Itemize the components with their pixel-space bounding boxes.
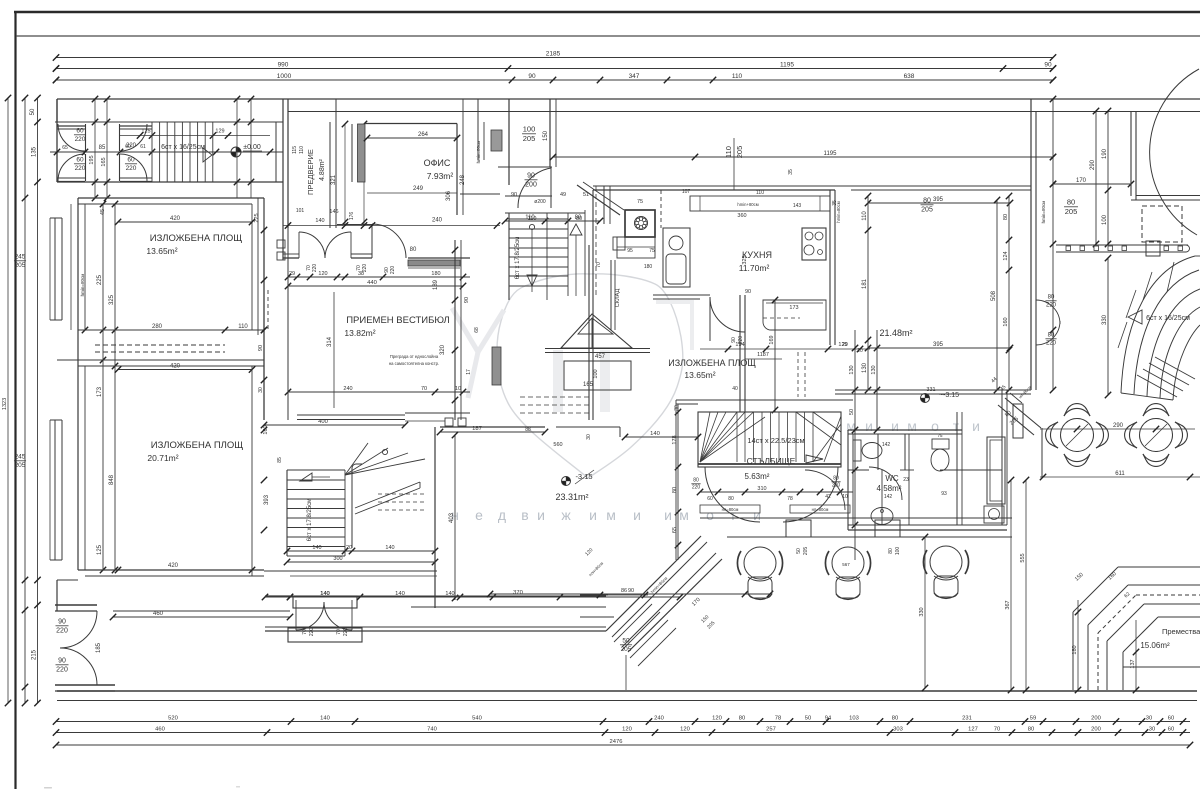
svg-text:325: 325 — [742, 255, 748, 264]
svg-text:75: 75 — [637, 199, 643, 205]
svg-text:30: 30 — [586, 434, 592, 440]
svg-text:90: 90 — [58, 619, 66, 626]
room 2148 dim 395 top — [868, 202, 1010, 204]
svg-text:4.58m²: 4.58m² — [877, 484, 902, 493]
svg-text:508: 508 — [991, 290, 997, 301]
svg-text:80: 80 — [1028, 726, 1034, 732]
room 2148 south wall — [835, 389, 1031, 391]
diag wall kitchen — [577, 185, 620, 215]
svg-text:нп=80см: нп=80см — [812, 507, 829, 512]
label 330 right — [1107, 258, 1109, 395]
central stair newel — [529, 224, 534, 229]
room 2148 vdim right — [996, 200, 998, 390]
room 2148 walls — [835, 185, 1031, 187]
central stair treads — [509, 218, 568, 220]
svg-text:м: м — [907, 418, 917, 434]
svg-text:т: т — [953, 418, 960, 434]
svg-text:400: 400 — [318, 419, 328, 425]
svg-text:176: 176 — [349, 212, 355, 221]
svg-text:21.48m²: 21.48m² — [879, 328, 912, 338]
svg-text:200: 200 — [1091, 715, 1101, 721]
svg-text:393: 393 — [264, 494, 270, 505]
room A dim 420 mid — [118, 369, 252, 371]
hall east wall — [588, 245, 590, 420]
diagonal passage walls — [1005, 398, 1041, 428]
svg-text:160: 160 — [1003, 317, 1009, 326]
svg-text:70: 70 — [421, 386, 427, 392]
bar stool 2 — [832, 547, 864, 579]
svg-text:245: 245 — [15, 454, 26, 461]
tick marks verticals — [261, 227, 267, 233]
svg-text:38: 38 — [358, 271, 364, 277]
svg-text:103: 103 — [849, 715, 859, 721]
svg-text:420: 420 — [170, 363, 181, 369]
svg-text:567: 567 — [842, 562, 850, 567]
svg-text:611: 611 — [1115, 471, 1125, 477]
wall stub left — [78, 329, 85, 331]
wc vdim right — [876, 330, 878, 430]
svg-text:о: о — [931, 418, 939, 434]
svg-text:50: 50 — [622, 638, 630, 645]
svg-text:80: 80 — [739, 715, 745, 721]
left dimension line 245/205 a — [24, 98, 26, 703]
movable vdim 180 — [1077, 600, 1079, 690]
svg-text:90: 90 — [1044, 61, 1052, 68]
left stub walls — [619, 427, 621, 437]
svg-text:60: 60 — [707, 496, 713, 502]
dim 1195 inner — [553, 156, 1053, 158]
svg-text:420: 420 — [170, 216, 181, 222]
lower stair treads — [287, 479, 345, 481]
svg-text:90: 90 — [528, 73, 536, 80]
hall 23 vdim — [454, 435, 456, 600]
kitchen dashed — [763, 317, 800, 319]
svg-text:80: 80 — [833, 476, 839, 482]
window hatch hall — [492, 347, 501, 385]
railing right — [1056, 244, 1188, 246]
room B dim 420 bottom — [118, 569, 252, 571]
svg-text:в: в — [521, 507, 528, 523]
svg-text:220: 220 — [390, 266, 396, 275]
svg-text:и: и — [664, 507, 672, 523]
svg-text:306: 306 — [446, 190, 452, 201]
svg-text:100: 100 — [1102, 214, 1108, 225]
stair west vdim — [677, 404, 679, 560]
svg-text:СКЛАД: СКЛАД — [615, 289, 621, 308]
svg-text:135: 135 — [31, 146, 37, 157]
svg-text:80: 80 — [672, 487, 678, 493]
svg-text:205: 205 — [523, 134, 536, 143]
stair south wall top — [676, 399, 853, 401]
svg-text:Преграда от еднослойна: Преграда от еднослойна — [390, 354, 439, 359]
lower stair arrow — [300, 473, 312, 481]
svg-text:180: 180 — [644, 264, 653, 270]
svg-text:85: 85 — [277, 457, 283, 463]
left of stair dim 140 — [625, 436, 698, 438]
hall 23 dim 370 — [560, 596, 680, 598]
svg-text:75: 75 — [937, 433, 943, 438]
pilaster dark — [358, 124, 366, 182]
svg-text:15.06m²: 15.06m² — [1140, 641, 1170, 650]
svg-text:165: 165 — [583, 382, 594, 388]
hall 23 dim 187 — [440, 431, 545, 433]
dimension line 2185 — [56, 57, 1053, 59]
dim 400 row — [264, 424, 405, 426]
svg-text:2476: 2476 — [610, 739, 623, 745]
svg-text:60: 60 — [76, 157, 84, 164]
movable inner lines — [1123, 666, 1200, 668]
svg-text:90: 90 — [464, 297, 470, 303]
svg-text:220: 220 — [343, 628, 349, 637]
right double door — [1036, 300, 1060, 324]
svg-text:110: 110 — [862, 211, 868, 221]
svg-text:347: 347 — [629, 73, 640, 80]
svg-text:и: и — [865, 418, 873, 434]
svg-text:и: и — [891, 418, 899, 434]
curved stair bottom steps — [1137, 375, 1177, 397]
svg-text:80: 80 — [728, 496, 734, 502]
entry vestibule walls — [56, 99, 58, 182]
svg-text:740: 740 — [427, 726, 437, 732]
wc sink 1 — [871, 508, 893, 525]
predverie vdim a — [344, 124, 346, 224]
svg-text:20: 20 — [346, 545, 352, 551]
entry vdim 251 — [250, 99, 252, 198]
svg-text:169: 169 — [769, 335, 775, 344]
svg-text:848: 848 — [109, 474, 115, 485]
svg-text:205: 205 — [735, 146, 744, 159]
svg-text:90: 90 — [511, 192, 517, 198]
svg-text:на самостоятелна констр.: на самостоятелна констр. — [389, 361, 439, 366]
svg-text:80: 80 — [576, 216, 582, 222]
svg-text:и: и — [589, 507, 597, 523]
svg-text:130: 130 — [862, 362, 868, 373]
svg-text:220: 220 — [75, 165, 86, 172]
svg-text:320: 320 — [440, 344, 446, 355]
svg-text:и: и — [972, 418, 980, 434]
wall near tables — [1041, 428, 1043, 477]
svg-text:555: 555 — [1020, 553, 1026, 562]
dashed rect right — [1142, 206, 1182, 242]
svg-text:360: 360 — [737, 213, 746, 219]
svg-text:1000: 1000 — [277, 73, 292, 80]
central stair up arrow — [570, 224, 582, 235]
kitchen top counter — [690, 196, 830, 211]
bar walls — [700, 517, 1012, 519]
svg-text:330: 330 — [919, 607, 925, 616]
dim 290 tables — [1040, 428, 1195, 430]
curved stair right — [1121, 256, 1195, 393]
svg-text:120: 120 — [712, 715, 722, 721]
south boundary wall — [57, 690, 1197, 692]
reception wall left — [263, 228, 265, 420]
entry vdim 195 — [94, 99, 96, 198]
dim 170 right — [1053, 183, 1131, 185]
svg-text:185: 185 — [96, 642, 102, 653]
svg-text:370: 370 — [513, 590, 523, 596]
svg-text:110: 110 — [756, 190, 764, 196]
svg-text:205: 205 — [621, 646, 632, 653]
svg-text:110: 110 — [528, 216, 537, 222]
kitchen cooktop — [802, 228, 826, 260]
svg-text:310: 310 — [757, 486, 766, 492]
svg-text:280: 280 — [152, 324, 163, 330]
svg-text:50: 50 — [30, 108, 36, 115]
left dimension line 1323 — [7, 98, 9, 703]
right L wall — [1130, 112, 1132, 197]
svg-text:65: 65 — [62, 145, 68, 151]
lower stair winders — [345, 443, 368, 475]
reception double door — [299, 232, 325, 258]
svg-text:120: 120 — [680, 726, 690, 732]
extra ticks top — [53, 65, 59, 71]
entry stairs 6 steps — [151, 122, 153, 182]
svg-text:303: 303 — [893, 726, 903, 732]
svg-text:120: 120 — [318, 271, 327, 277]
svg-text:264: 264 — [418, 132, 429, 138]
svg-text:м: м — [606, 507, 616, 523]
svg-text:80: 80 — [892, 715, 898, 721]
svg-text:990: 990 — [278, 61, 289, 68]
svg-text:194: 194 — [735, 342, 744, 348]
svg-text:460: 460 — [155, 726, 165, 732]
svg-text:14ст x 22.5/23см: 14ст x 22.5/23см — [747, 436, 804, 445]
hall triangle podium — [561, 314, 632, 348]
svg-text:231: 231 — [962, 715, 972, 721]
svg-text:240: 240 — [432, 218, 443, 224]
svg-text:143: 143 — [793, 203, 802, 209]
svg-text:150: 150 — [543, 130, 549, 141]
svg-text:124: 124 — [1003, 251, 1009, 260]
svg-text:205: 205 — [921, 207, 933, 214]
room 2148 vdim right2 — [1008, 196, 1010, 390]
svg-text:225: 225 — [97, 274, 103, 285]
lower stair dashes — [378, 493, 425, 495]
office walls — [365, 123, 457, 125]
svg-text:140: 140 — [385, 545, 394, 551]
svg-text:225: 225 — [254, 213, 260, 222]
svg-text:125: 125 — [141, 129, 150, 135]
north exterior wall — [57, 98, 1200, 100]
svg-text:2185: 2185 — [546, 50, 561, 57]
reception dim 140 240 — [283, 225, 500, 227]
bar pedestal 2 — [875, 520, 900, 537]
reception dim 440 — [288, 285, 463, 287]
svg-text:30: 30 — [1146, 715, 1152, 721]
svg-text:50: 50 — [849, 409, 855, 415]
room A vdim 325 — [114, 204, 116, 570]
svg-text:30: 30 — [1149, 726, 1155, 732]
svg-text:220: 220 — [692, 485, 701, 491]
svg-text:248: 248 — [460, 174, 466, 185]
svg-text:129: 129 — [215, 129, 224, 135]
svg-text:е: е — [475, 507, 483, 523]
svg-text:173: 173 — [789, 305, 798, 311]
stair dim row — [700, 491, 853, 493]
right wall main — [1030, 99, 1032, 390]
svg-text:85: 85 — [99, 145, 106, 151]
svg-text:1323: 1323 — [2, 398, 8, 410]
benchmark -3.15 right — [921, 394, 930, 403]
svg-text:520: 520 — [168, 715, 178, 721]
svg-text:240: 240 — [343, 386, 352, 392]
svg-text:290: 290 — [1113, 423, 1124, 429]
svg-text:220: 220 — [1046, 303, 1057, 309]
bottom dim row 1 — [56, 721, 1190, 723]
svg-text:49: 49 — [560, 192, 566, 198]
lower stair stringers — [355, 482, 420, 508]
kitchen stove unit — [625, 210, 655, 237]
svg-text:42: 42 — [825, 494, 831, 500]
bottom-left double door — [55, 604, 97, 606]
svg-text:140: 140 — [650, 431, 660, 437]
predverie vdim b — [363, 124, 365, 224]
svg-text:1195: 1195 — [824, 151, 838, 157]
svg-text:ИЗЛОЖБЕНА ПЛОЩ: ИЗЛОЖБЕНА ПЛОЩ — [150, 233, 243, 244]
svg-text:29: 29 — [289, 271, 295, 277]
svg-text:78: 78 — [775, 715, 781, 721]
svg-text:220: 220 — [56, 628, 68, 635]
svg-text:70: 70 — [302, 629, 308, 635]
room 2148 vdim left — [867, 196, 869, 390]
wc block walls — [848, 429, 962, 431]
svg-text:321: 321 — [331, 174, 337, 185]
lower stair rail — [351, 468, 353, 548]
svg-text:13.65m²: 13.65m² — [684, 370, 715, 380]
svg-text:и: и — [633, 507, 641, 523]
svg-text:95: 95 — [627, 248, 633, 254]
svg-text:Премества: Премества — [1162, 627, 1200, 636]
svg-text:hmin=80см: hmin=80см — [1041, 201, 1046, 224]
right vdim 190 — [1107, 111, 1109, 244]
table T2 with chairs — [1140, 419, 1173, 452]
svg-text:80: 80 — [1048, 295, 1055, 301]
hall south wall — [265, 630, 606, 632]
window hatch top corridor — [491, 130, 502, 151]
svg-text:107: 107 — [682, 189, 691, 195]
svg-text:90: 90 — [745, 289, 751, 295]
svg-text:80: 80 — [923, 198, 931, 205]
watermark text row недвижими имоти — [451, 507, 761, 523]
svg-text:ж: ж — [561, 507, 571, 523]
room A window — [54, 218, 56, 320]
hall dashed lines — [520, 396, 592, 398]
svg-text:560: 560 — [553, 442, 562, 448]
pilaster outline — [351, 124, 353, 182]
entry double door left — [57, 125, 85, 127]
bar stool 3 — [930, 546, 962, 578]
svg-text:~-3.15: ~-3.15 — [939, 392, 959, 399]
svg-text:90: 90 — [628, 588, 634, 594]
svg-text:420: 420 — [168, 563, 179, 569]
svg-text:115: 115 — [292, 146, 298, 154]
svg-text:70: 70 — [596, 262, 602, 268]
terrace edge 460 — [113, 616, 290, 618]
bar stool 1 — [744, 547, 776, 579]
office door arc — [372, 224, 406, 258]
hall platform — [564, 361, 631, 390]
kitchen counter right — [763, 300, 826, 330]
svg-text:10: 10 — [455, 386, 461, 392]
svg-text:5.63m²: 5.63m² — [745, 472, 770, 481]
room A dim 420 top — [118, 221, 252, 223]
bc dim 140 140 — [265, 596, 460, 598]
svg-text:60: 60 — [125, 144, 131, 150]
svg-text:540: 540 — [472, 715, 482, 721]
dashed pair center — [797, 352, 799, 397]
svg-text:23: 23 — [903, 477, 909, 483]
svg-text:ИЗЛОЖБЕНА ПЛОЩ: ИЗЛОЖБЕНА ПЛОЩ — [151, 440, 244, 451]
bar pedestal 1 — [786, 520, 811, 537]
diagonal walls terrace — [606, 536, 701, 631]
svg-text:180: 180 — [431, 271, 440, 277]
svg-text:220: 220 — [56, 667, 68, 674]
right vdim 290 — [1095, 111, 1097, 244]
svg-text:▁▁: ▁▁ — [43, 783, 52, 789]
svg-text:ОФИС: ОФИС — [424, 158, 451, 168]
svg-text:130: 130 — [871, 365, 877, 374]
winder newel — [382, 449, 387, 454]
svg-text:142: 142 — [884, 494, 893, 500]
svg-text:80: 80 — [410, 247, 417, 253]
wc door arcs — [869, 467, 902, 500]
svg-text:220: 220 — [312, 264, 318, 273]
svg-text:30: 30 — [258, 387, 264, 393]
svg-text:70: 70 — [336, 629, 342, 635]
svg-text:WC: WC — [885, 474, 899, 483]
svg-text:ø200: ø200 — [534, 199, 546, 205]
svg-text:173: 173 — [97, 386, 103, 397]
svg-text:60: 60 — [1168, 715, 1174, 721]
left dimension line inner — [37, 98, 39, 703]
reception north wall — [283, 257, 299, 259]
room B window — [54, 420, 56, 560]
svg-text:78: 78 — [787, 496, 793, 502]
svg-text:331: 331 — [926, 387, 935, 393]
dim 611 — [1040, 476, 1200, 478]
svg-text:142: 142 — [882, 442, 891, 448]
svg-text:140: 140 — [320, 715, 330, 721]
svg-text:7.93m²: 7.93m² — [427, 171, 454, 181]
svg-text:6ст x 16/25см: 6ст x 16/25см — [1146, 315, 1190, 322]
benchmark ±0.00 — [231, 147, 241, 157]
svg-text:181: 181 — [862, 278, 868, 289]
dimension line 1000/90/347/110/638 — [56, 79, 1053, 81]
svg-text:hmin=80см: hmin=80см — [476, 141, 481, 164]
svg-text:245: 245 — [15, 254, 26, 261]
svg-text:23.31m²: 23.31m² — [555, 492, 588, 502]
svg-text:60: 60 — [76, 128, 84, 135]
svg-text:4.88m²: 4.88m² — [319, 158, 326, 180]
svg-text:ПРИЕМЕН ВЕСТИБЮЛ: ПРИЕМЕН ВЕСТИБЮЛ — [346, 315, 450, 326]
svg-text:88: 88 — [525, 427, 531, 433]
stair doors — [705, 467, 760, 522]
svg-text:100: 100 — [593, 369, 599, 378]
bottom dim row 2476 — [56, 744, 1190, 746]
kitchen sink unit — [663, 228, 690, 287]
svg-text:17: 17 — [466, 369, 472, 375]
reception dim row — [288, 276, 470, 278]
svg-text:1187: 1187 — [757, 352, 769, 358]
svg-text:110: 110 — [238, 324, 248, 330]
lower stair dim 300 — [287, 561, 435, 563]
wc sink 2 — [984, 506, 1004, 523]
svg-text:80: 80 — [693, 478, 699, 484]
hall bottom dims — [290, 596, 560, 598]
svg-text:205: 205 — [15, 462, 26, 469]
kitchen east wall — [829, 190, 831, 345]
svg-text:395: 395 — [933, 197, 944, 203]
